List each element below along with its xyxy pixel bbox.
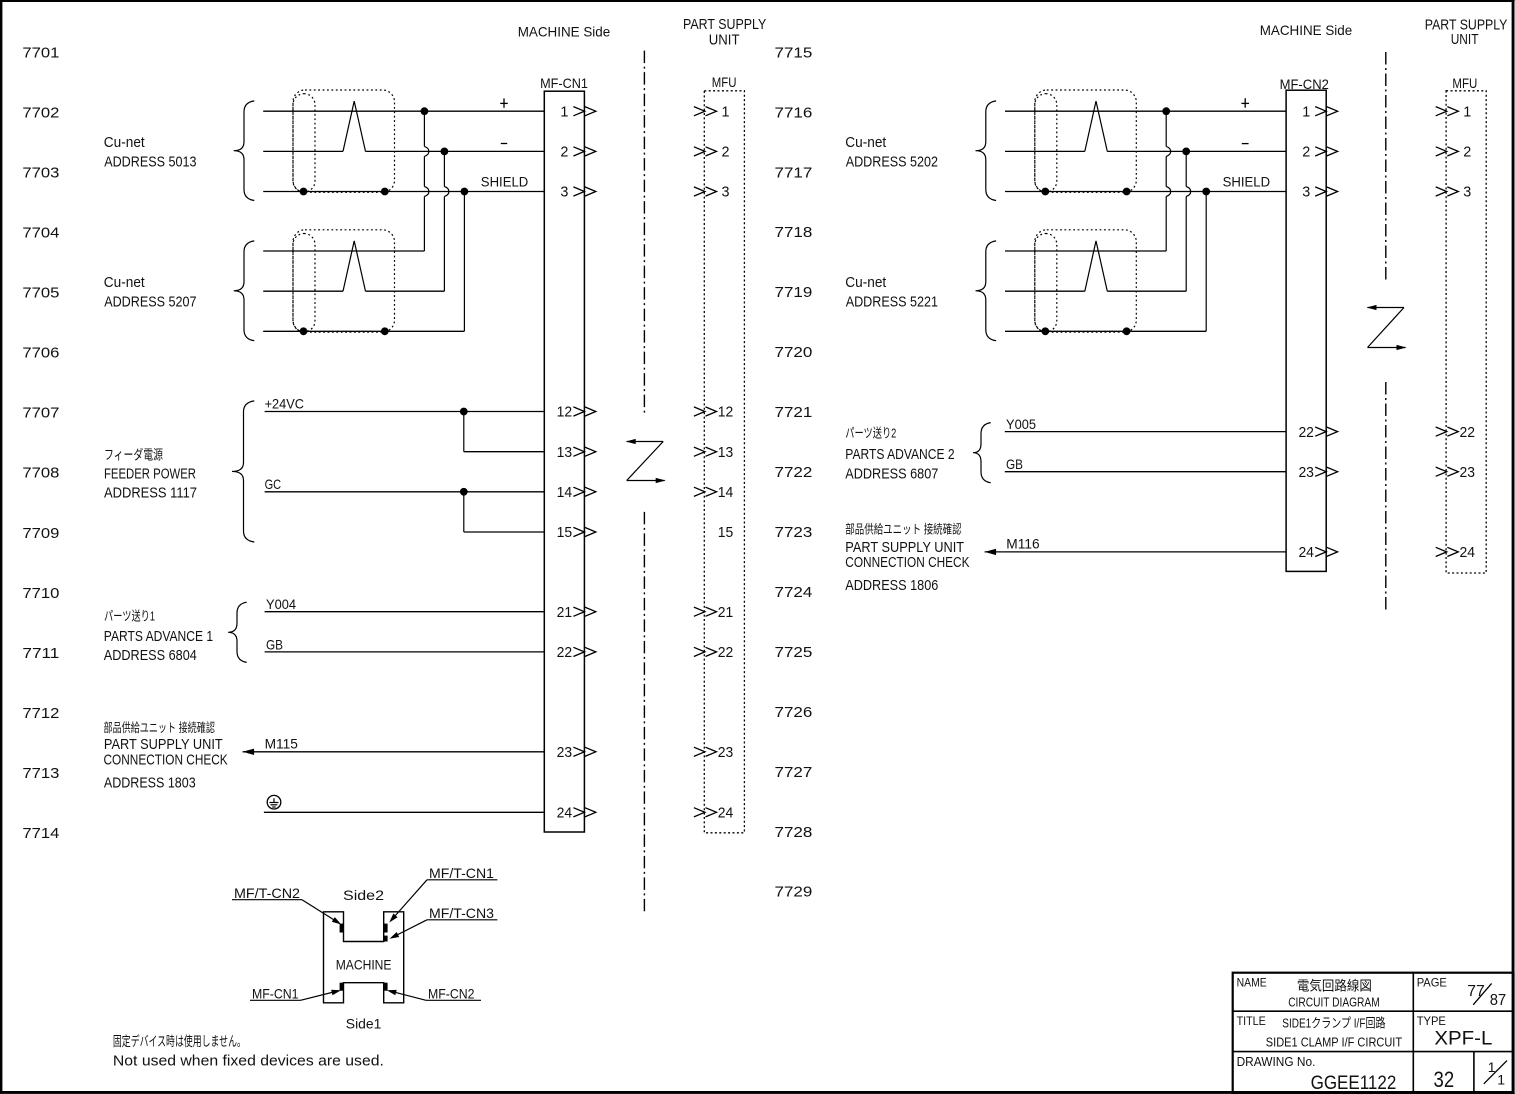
svg-text:CONNECTION CHECK: CONNECTION CHECK (104, 752, 228, 769)
svg-text:24: 24 (1298, 544, 1314, 561)
svg-text:7722: 7722 (775, 464, 813, 481)
label - (501, 143, 507, 145)
svg-text:部品供給ユニット 接続確認: 部品供給ユニット 接続確認 (845, 522, 962, 537)
connector MFU dotted box (right) (1446, 91, 1486, 573)
left row numbers 7701-7714 (22, 44, 59, 842)
svg-text:2: 2 (1463, 144, 1471, 161)
label + (500, 102, 508, 104)
label - (1242, 143, 1249, 145)
shield cable oval Cu-net 5221 (1035, 234, 1057, 332)
title block frame (1233, 973, 1513, 1093)
wire to pin 24 (264, 811, 544, 813)
title block PAGE cell (1417, 975, 1507, 1009)
svg-text:2: 2 (560, 144, 568, 161)
svg-text:7715: 7715 (775, 44, 813, 61)
label feeder power (104, 448, 197, 502)
svg-text:ADDRESS 5202: ADDRESS 5202 (846, 154, 938, 171)
cable body Cu-net 5013 (293, 90, 395, 192)
junction dots (300, 328, 307, 335)
middle row numbers 7715-7729 (775, 44, 813, 900)
machine outline (324, 912, 404, 1003)
brace Cu-net 5207 (234, 241, 255, 341)
boundary dash-dot line (right) (1385, 52, 1387, 281)
twist symbol Cu-net 5221 (1085, 241, 1108, 291)
svg-text:Side1: Side1 (346, 1015, 382, 1031)
svg-text:パーツ送り1: パーツ送り1 (104, 608, 155, 623)
shield cable oval Cu-net 5013 (293, 94, 315, 192)
svg-text:MF-CN1: MF-CN1 (540, 75, 588, 91)
svg-text:UNIT: UNIT (709, 33, 740, 49)
junction dot (1163, 108, 1170, 115)
svg-text:MF-CN1: MF-CN1 (252, 986, 299, 1002)
wire 7719 (1005, 290, 1085, 292)
svg-text:+24VC: +24VC (265, 396, 304, 412)
svg-text:7708: 7708 (22, 465, 59, 482)
svg-text:GGEE1122: GGEE1122 (1311, 1072, 1397, 1094)
svg-text:22: 22 (718, 644, 734, 661)
svg-text:ADDRESS 1117: ADDRESS 1117 (104, 484, 197, 501)
svg-text:7712: 7712 (22, 705, 59, 722)
svg-text:ADDRESS 5207: ADDRESS 5207 (104, 294, 196, 311)
label parts advance 2 (845, 426, 954, 483)
svg-text:PAGE: PAGE (1417, 975, 1447, 989)
svg-text:SHIELD: SHIELD (1223, 174, 1271, 190)
svg-text:1: 1 (722, 103, 730, 120)
svg-text:7710: 7710 (22, 585, 59, 602)
svg-text:ADDRESS 5013: ADDRESS 5013 (104, 154, 196, 171)
svg-text:PART SUPPLY: PART SUPPLY (683, 17, 767, 33)
svg-text:電気回路線図: 電気回路線図 (1297, 979, 1372, 994)
cable break symbol (right) (1368, 307, 1405, 309)
svg-text:固定デバイス時は使用しません。: 固定デバイス時は使用しません。 (113, 1033, 246, 1049)
svg-text:15: 15 (718, 524, 734, 541)
svg-text:7707: 7707 (22, 405, 59, 422)
svg-text:MFU: MFU (1452, 75, 1477, 91)
svg-text:CONNECTION CHECK: CONNECTION CHECK (845, 554, 969, 571)
svg-text:7718: 7718 (775, 224, 813, 241)
connector mark MF/T-CN3 position (384, 936, 388, 942)
wire - (7717) (1005, 150, 1085, 152)
svg-text:3: 3 (560, 184, 568, 201)
wire 7718 (1005, 250, 1166, 252)
title block TITLE cell (1237, 1014, 1403, 1050)
svg-text:7719: 7719 (775, 284, 813, 301)
svg-text:7728: 7728 (775, 824, 813, 841)
label part supply unit connection check 1803 (104, 720, 228, 792)
svg-text:23: 23 (1298, 464, 1314, 481)
branch to pin 15 (463, 492, 465, 532)
twist symbol Cu-net 5202 (1085, 101, 1108, 151)
svg-text:3: 3 (722, 184, 730, 201)
connector mark MF/T-CN2 position (340, 924, 344, 933)
svg-text:13: 13 (718, 444, 734, 461)
vertical tie wire 2 (right) (1185, 151, 1187, 186)
junction dots (1042, 328, 1049, 335)
svg-text:Cu-net: Cu-net (845, 274, 887, 291)
brace Cu-net 5013 (234, 101, 255, 201)
svg-text:Cu-net: Cu-net (845, 134, 887, 151)
title block TYPE cell (1417, 1014, 1493, 1050)
svg-text:1: 1 (1463, 103, 1471, 120)
svg-text:7727: 7727 (775, 764, 813, 781)
wire - (7703) (263, 150, 343, 152)
wire + (7716) (1005, 110, 1286, 112)
svg-text:UNIT: UNIT (1451, 32, 1479, 48)
junction dot (441, 148, 448, 155)
svg-text:PARTS ADVANCE 2: PARTS ADVANCE 2 (845, 446, 954, 463)
title block sheet 1/1 (1484, 1059, 1507, 1088)
brace Cu-net 5221 (976, 241, 997, 341)
svg-text:MACHINE Side: MACHINE Side (1260, 22, 1353, 38)
svg-text:7726: 7726 (775, 704, 813, 721)
vertical tie wire 3 (463, 192, 465, 332)
svg-text:77: 77 (1467, 983, 1485, 1000)
MF-CN1 pins (557, 103, 596, 821)
svg-text:12: 12 (718, 404, 734, 421)
svg-text:パーツ送り2: パーツ送り2 (845, 426, 896, 441)
svg-text:7704: 7704 (22, 225, 59, 242)
svg-text:7724: 7724 (775, 584, 813, 601)
svg-text:7725: 7725 (775, 644, 813, 661)
svg-text:PART SUPPLY: PART SUPPLY (1425, 17, 1508, 33)
svg-text:3: 3 (1463, 184, 1471, 201)
svg-text:2: 2 (1302, 144, 1310, 161)
svg-text:MACHINE: MACHINE (336, 956, 392, 972)
svg-text:7714: 7714 (22, 825, 59, 842)
boundary dash-dot line (left) (643, 51, 645, 413)
svg-text:7702: 7702 (22, 105, 59, 122)
vertical tie wire 2 (443, 151, 445, 186)
svg-text:7709: 7709 (22, 525, 59, 542)
connector mark MF-CN2 position (384, 983, 388, 991)
wire + (7702) (263, 110, 544, 112)
label + (1241, 102, 1249, 104)
svg-text:22: 22 (1460, 424, 1476, 441)
brace parts advance 2 (973, 423, 991, 483)
cable body Cu-net 5207 (293, 230, 395, 332)
svg-text:24: 24 (1460, 544, 1476, 561)
label parts advance 1 (104, 608, 213, 664)
protective earth symbol (267, 795, 281, 809)
connector mark MF/T-CN1 position (384, 924, 388, 933)
brace Cu-net 5202 (976, 101, 997, 201)
twist symbol Cu-net 5207 (343, 241, 366, 291)
svg-text:2: 2 (722, 144, 730, 161)
wire 7706 shield (263, 330, 464, 332)
svg-text:SIDE1クランプ I/F回路: SIDE1クランプ I/F回路 (1282, 1016, 1385, 1031)
svg-text:M115: M115 (265, 735, 299, 751)
connector MF-CN2 box (1286, 90, 1326, 571)
svg-text:MFU: MFU (712, 74, 737, 90)
svg-text:Side2: Side2 (343, 887, 384, 903)
vertical tie wire 1 (right) (1165, 111, 1167, 146)
branch to pin 13 (463, 412, 465, 452)
svg-text:14: 14 (557, 484, 573, 501)
svg-text:7721: 7721 (775, 404, 813, 421)
svg-text:PARTS ADVANCE 1: PARTS ADVANCE 1 (104, 628, 213, 645)
svg-text:ADDRESS 6804: ADDRESS 6804 (104, 647, 197, 664)
svg-text:ADDRESS 1803: ADDRESS 1803 (104, 774, 196, 791)
svg-text:21: 21 (718, 604, 734, 621)
svg-text:24: 24 (557, 805, 573, 822)
svg-text:SHIELD: SHIELD (481, 174, 529, 190)
svg-text:Y005: Y005 (1006, 416, 1036, 432)
label Cu-net ADDRESS 5202 (845, 134, 938, 171)
svg-text:SIDE1 CLAMP I/F CIRCUIT: SIDE1 CLAMP I/F CIRCUIT (1266, 1035, 1402, 1050)
label part supply unit connection check 1806 (845, 522, 969, 594)
junction dot (421, 108, 428, 115)
svg-text:23: 23 (557, 744, 573, 761)
svg-text:GB: GB (1006, 456, 1023, 472)
svg-text:Not used when fixed devices ar: Not used when fixed devices are used. (113, 1053, 384, 1069)
cable body Cu-net 5221 (1035, 230, 1137, 332)
label Cu-net ADDRESS 5221 (845, 274, 938, 311)
svg-text:GC: GC (265, 476, 282, 492)
connector MFU dotted box (left) (704, 91, 744, 833)
svg-text:21: 21 (557, 604, 573, 621)
svg-text:32: 32 (1434, 1067, 1455, 1092)
brace feeder power (232, 401, 254, 542)
svg-text:GB: GB (266, 636, 283, 652)
svg-text:23: 23 (718, 744, 734, 761)
svg-text:7716: 7716 (775, 104, 813, 121)
svg-text:NAME: NAME (1237, 975, 1267, 989)
vertical tie wire 1 (423, 111, 425, 146)
wire 7705 (263, 290, 343, 292)
MFU pins (left) (694, 103, 733, 821)
svg-text:1: 1 (1302, 103, 1310, 120)
svg-text:フィーダ電源: フィーダ電源 (104, 448, 163, 463)
shield cable oval Cu-net 5202 (1035, 94, 1057, 192)
svg-text:M116: M116 (1006, 535, 1040, 551)
svg-text:Cu-net: Cu-net (104, 274, 146, 291)
MFU pins (right) (1436, 103, 1475, 561)
svg-text:TYPE: TYPE (1417, 1014, 1446, 1028)
wire SHIELD (263, 191, 544, 193)
svg-text:7723: 7723 (775, 524, 813, 541)
svg-text:12: 12 (557, 404, 573, 421)
MF-CN2 pins (1298, 103, 1337, 561)
brace parts advance 1 (228, 602, 247, 662)
svg-text:3: 3 (1302, 184, 1310, 201)
connector MF-CN1 box (544, 91, 584, 832)
header PART SUPPLY UNIT (right) (1425, 17, 1508, 48)
svg-text:MF/T-CN3: MF/T-CN3 (429, 905, 494, 921)
wire SHIELD (right) (1005, 191, 1286, 193)
shield cable oval Cu-net 5207 (293, 234, 315, 332)
svg-text:XPF-L: XPF-L (1434, 1029, 1492, 1050)
svg-text:22: 22 (557, 644, 573, 661)
svg-text:1: 1 (1497, 1072, 1505, 1088)
svg-text:Cu-net: Cu-net (104, 134, 146, 151)
wire 7704 (263, 250, 424, 252)
svg-text:TITLE: TITLE (1237, 1014, 1266, 1028)
wire 7720 shield (1005, 330, 1206, 332)
svg-text:7729: 7729 (775, 884, 813, 901)
title block NAME cell (1237, 975, 1380, 1009)
svg-text:22: 22 (1298, 424, 1314, 441)
svg-text:部品供給ユニット 接続確認: 部品供給ユニット 接続確認 (104, 720, 216, 735)
svg-text:ADDRESS 6807: ADDRESS 6807 (845, 465, 938, 482)
svg-text:Y004: Y004 (266, 596, 296, 612)
svg-text:87: 87 (1490, 992, 1507, 1009)
svg-text:7703: 7703 (22, 165, 59, 182)
junction dots on shield wire (300, 188, 307, 195)
label Cu-net ADDRESS 5207 (104, 274, 197, 311)
svg-text:24: 24 (718, 805, 734, 822)
svg-text:MF/T-CN1: MF/T-CN1 (429, 865, 494, 881)
svg-text:ADDRESS 1806: ADDRESS 1806 (845, 577, 938, 594)
svg-text:14: 14 (718, 484, 734, 501)
svg-text:FEEDER POWER: FEEDER POWER (104, 465, 196, 482)
svg-text:MF-CN2: MF-CN2 (428, 986, 475, 1002)
svg-text:CIRCUIT DIAGRAM: CIRCUIT DIAGRAM (1288, 995, 1380, 1010)
svg-text:15: 15 (557, 524, 573, 541)
svg-text:23: 23 (1460, 464, 1476, 481)
vertical tie wire 3 (right) (1205, 192, 1207, 332)
header PART SUPPLY UNIT (left) (683, 17, 767, 49)
svg-text:7701: 7701 (22, 44, 59, 61)
label Cu-net ADDRESS 5013 (104, 134, 197, 171)
cable body Cu-net 5202 (1035, 90, 1137, 192)
svg-text:ADDRESS 5221: ADDRESS 5221 (846, 294, 938, 311)
svg-text:7713: 7713 (22, 765, 59, 782)
svg-text:MF/T-CN2: MF/T-CN2 (234, 885, 300, 901)
svg-text:7711: 7711 (22, 645, 59, 662)
svg-text:7720: 7720 (775, 344, 813, 361)
junction dot (1183, 148, 1190, 155)
svg-text:7717: 7717 (775, 164, 813, 181)
svg-text:DRAWING No.: DRAWING No. (1237, 1054, 1316, 1069)
connector mark MF-CN1 position (340, 983, 344, 991)
junction dots on shield wire (1042, 188, 1049, 195)
svg-text:7706: 7706 (22, 345, 59, 362)
cable break symbol (left) (627, 441, 664, 443)
svg-text:1: 1 (560, 103, 568, 120)
svg-text:13: 13 (557, 444, 573, 461)
title block DRAWING No cell (1237, 1054, 1397, 1094)
svg-text:MACHINE Side: MACHINE Side (518, 24, 611, 40)
svg-text:7705: 7705 (22, 285, 59, 302)
twist symbol Cu-net 5013 (343, 101, 366, 151)
